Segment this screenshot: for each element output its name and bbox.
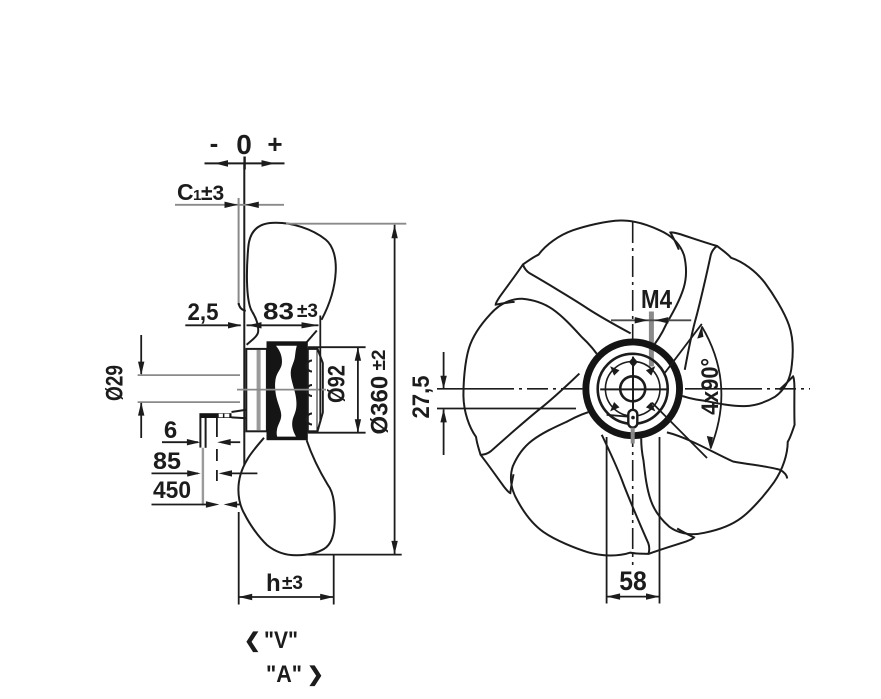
svg-text:"A": "A" [266, 661, 302, 688]
dashed extension line [216, 418, 218, 482]
dimension 58 [607, 437, 660, 604]
dimension line C1 [175, 202, 284, 208]
svg-text:58: 58 [619, 566, 647, 596]
dimension line 85 [152, 470, 258, 476]
grey stub below slot [631, 428, 635, 444]
label h±3 [266, 570, 303, 597]
label minus [210, 128, 219, 158]
cable conduit (Ø29) [138, 375, 240, 402]
label 6 [164, 417, 177, 444]
short edge line in hub [607, 415, 628, 417]
svg-text:27,5: 27,5 [408, 376, 435, 419]
dimension Ø29 [102, 335, 145, 438]
label C1±3 [177, 179, 224, 205]
blade lower-right outline [612, 340, 842, 557]
svg-text:❯: ❯ [307, 664, 324, 687]
bolt pitch circle [605, 362, 660, 417]
cable (grey) [202, 448, 204, 506]
vertical centreline [632, 222, 634, 565]
svg-text:450: 450 [153, 477, 191, 504]
svg-text:M4: M4 [641, 284, 672, 314]
svg-text:C: C [177, 179, 194, 205]
label 83±3 [263, 299, 318, 326]
svg-text:4x90°: 4x90° [697, 358, 724, 415]
shaft circle with crosshair [600, 357, 666, 427]
horizontal centreline [437, 388, 810, 390]
bolt hole marker upper-left [610, 366, 619, 375]
cable slot [628, 410, 637, 428]
M4 stud leader [649, 312, 654, 367]
svg-text:2,5: 2,5 [188, 299, 219, 326]
motor axis centreline [237, 389, 326, 391]
cable exit and gland [199, 410, 246, 448]
svg-text:±3: ±3 [201, 182, 224, 205]
svg-text:0: 0 [236, 129, 252, 160]
dimension Ø92 [308, 347, 366, 433]
label 85 [153, 448, 181, 475]
bottom blade (side view) [238, 438, 334, 556]
svg-text:83: 83 [263, 299, 294, 326]
blade upper-left outline [430, 286, 612, 507]
tolerance direction line [205, 157, 285, 170]
svg-text:6: 6 [164, 417, 177, 444]
hub face fill [582, 339, 683, 440]
airflow label A [266, 661, 324, 688]
custom lower-right fold [667, 432, 787, 478]
svg-text:Ø92: Ø92 [324, 365, 351, 403]
svg-text:85: 85 [153, 448, 181, 475]
dimension 27,5 [408, 352, 576, 455]
svg-text:❮: ❮ [244, 630, 261, 653]
label 450 [153, 477, 191, 504]
dimension Ø360±2 [286, 224, 406, 555]
svg-text:h: h [266, 570, 281, 597]
label plus [267, 129, 282, 159]
dimension line 2,5 / 83 [185, 316, 320, 423]
motor housing (black mass with rotor) [267, 341, 308, 440]
svg-text:Ø360: Ø360 [367, 376, 394, 435]
label M4 [641, 284, 672, 314]
airflow label V [244, 627, 298, 654]
svg-text:±2: ±2 [369, 350, 390, 371]
svg-text:±3: ±3 [282, 573, 303, 594]
top marker diamond [629, 357, 638, 367]
dimension line M4 [611, 317, 691, 323]
svg-text:"V": "V" [264, 627, 298, 654]
svg-text:+: + [267, 129, 282, 159]
dimension line 450 [152, 501, 240, 507]
motor rear section [307, 349, 323, 431]
svg-text:-: - [210, 128, 219, 158]
dimension line 6 [162, 439, 240, 445]
hub outer ring [586, 342, 680, 436]
svg-text:±3: ±3 [297, 301, 318, 322]
hub inner circle [598, 354, 668, 424]
bolt hole marker upper-right [646, 366, 655, 375]
label 2,5 [188, 299, 219, 326]
blade fold lines [481, 246, 788, 554]
blade upper-right outline [627, 206, 809, 427]
label 0 [236, 129, 252, 160]
motor front plate [246, 349, 267, 431]
fan silhouette (blade fills) [430, 206, 842, 605]
top blade (side view) [247, 223, 336, 346]
dimension 4x90° [652, 324, 724, 458]
bolt hole marker lower-left [610, 402, 619, 411]
blade lower-left outline [491, 389, 721, 606]
blade top outline [430, 206, 842, 605]
blade tip plane line (grey) [239, 198, 246, 311]
bolt hole marker lower-right [646, 402, 655, 411]
dimension line h [239, 512, 334, 605]
svg-text:Ø29: Ø29 [102, 365, 129, 401]
zero reference plane line [243, 163, 245, 468]
